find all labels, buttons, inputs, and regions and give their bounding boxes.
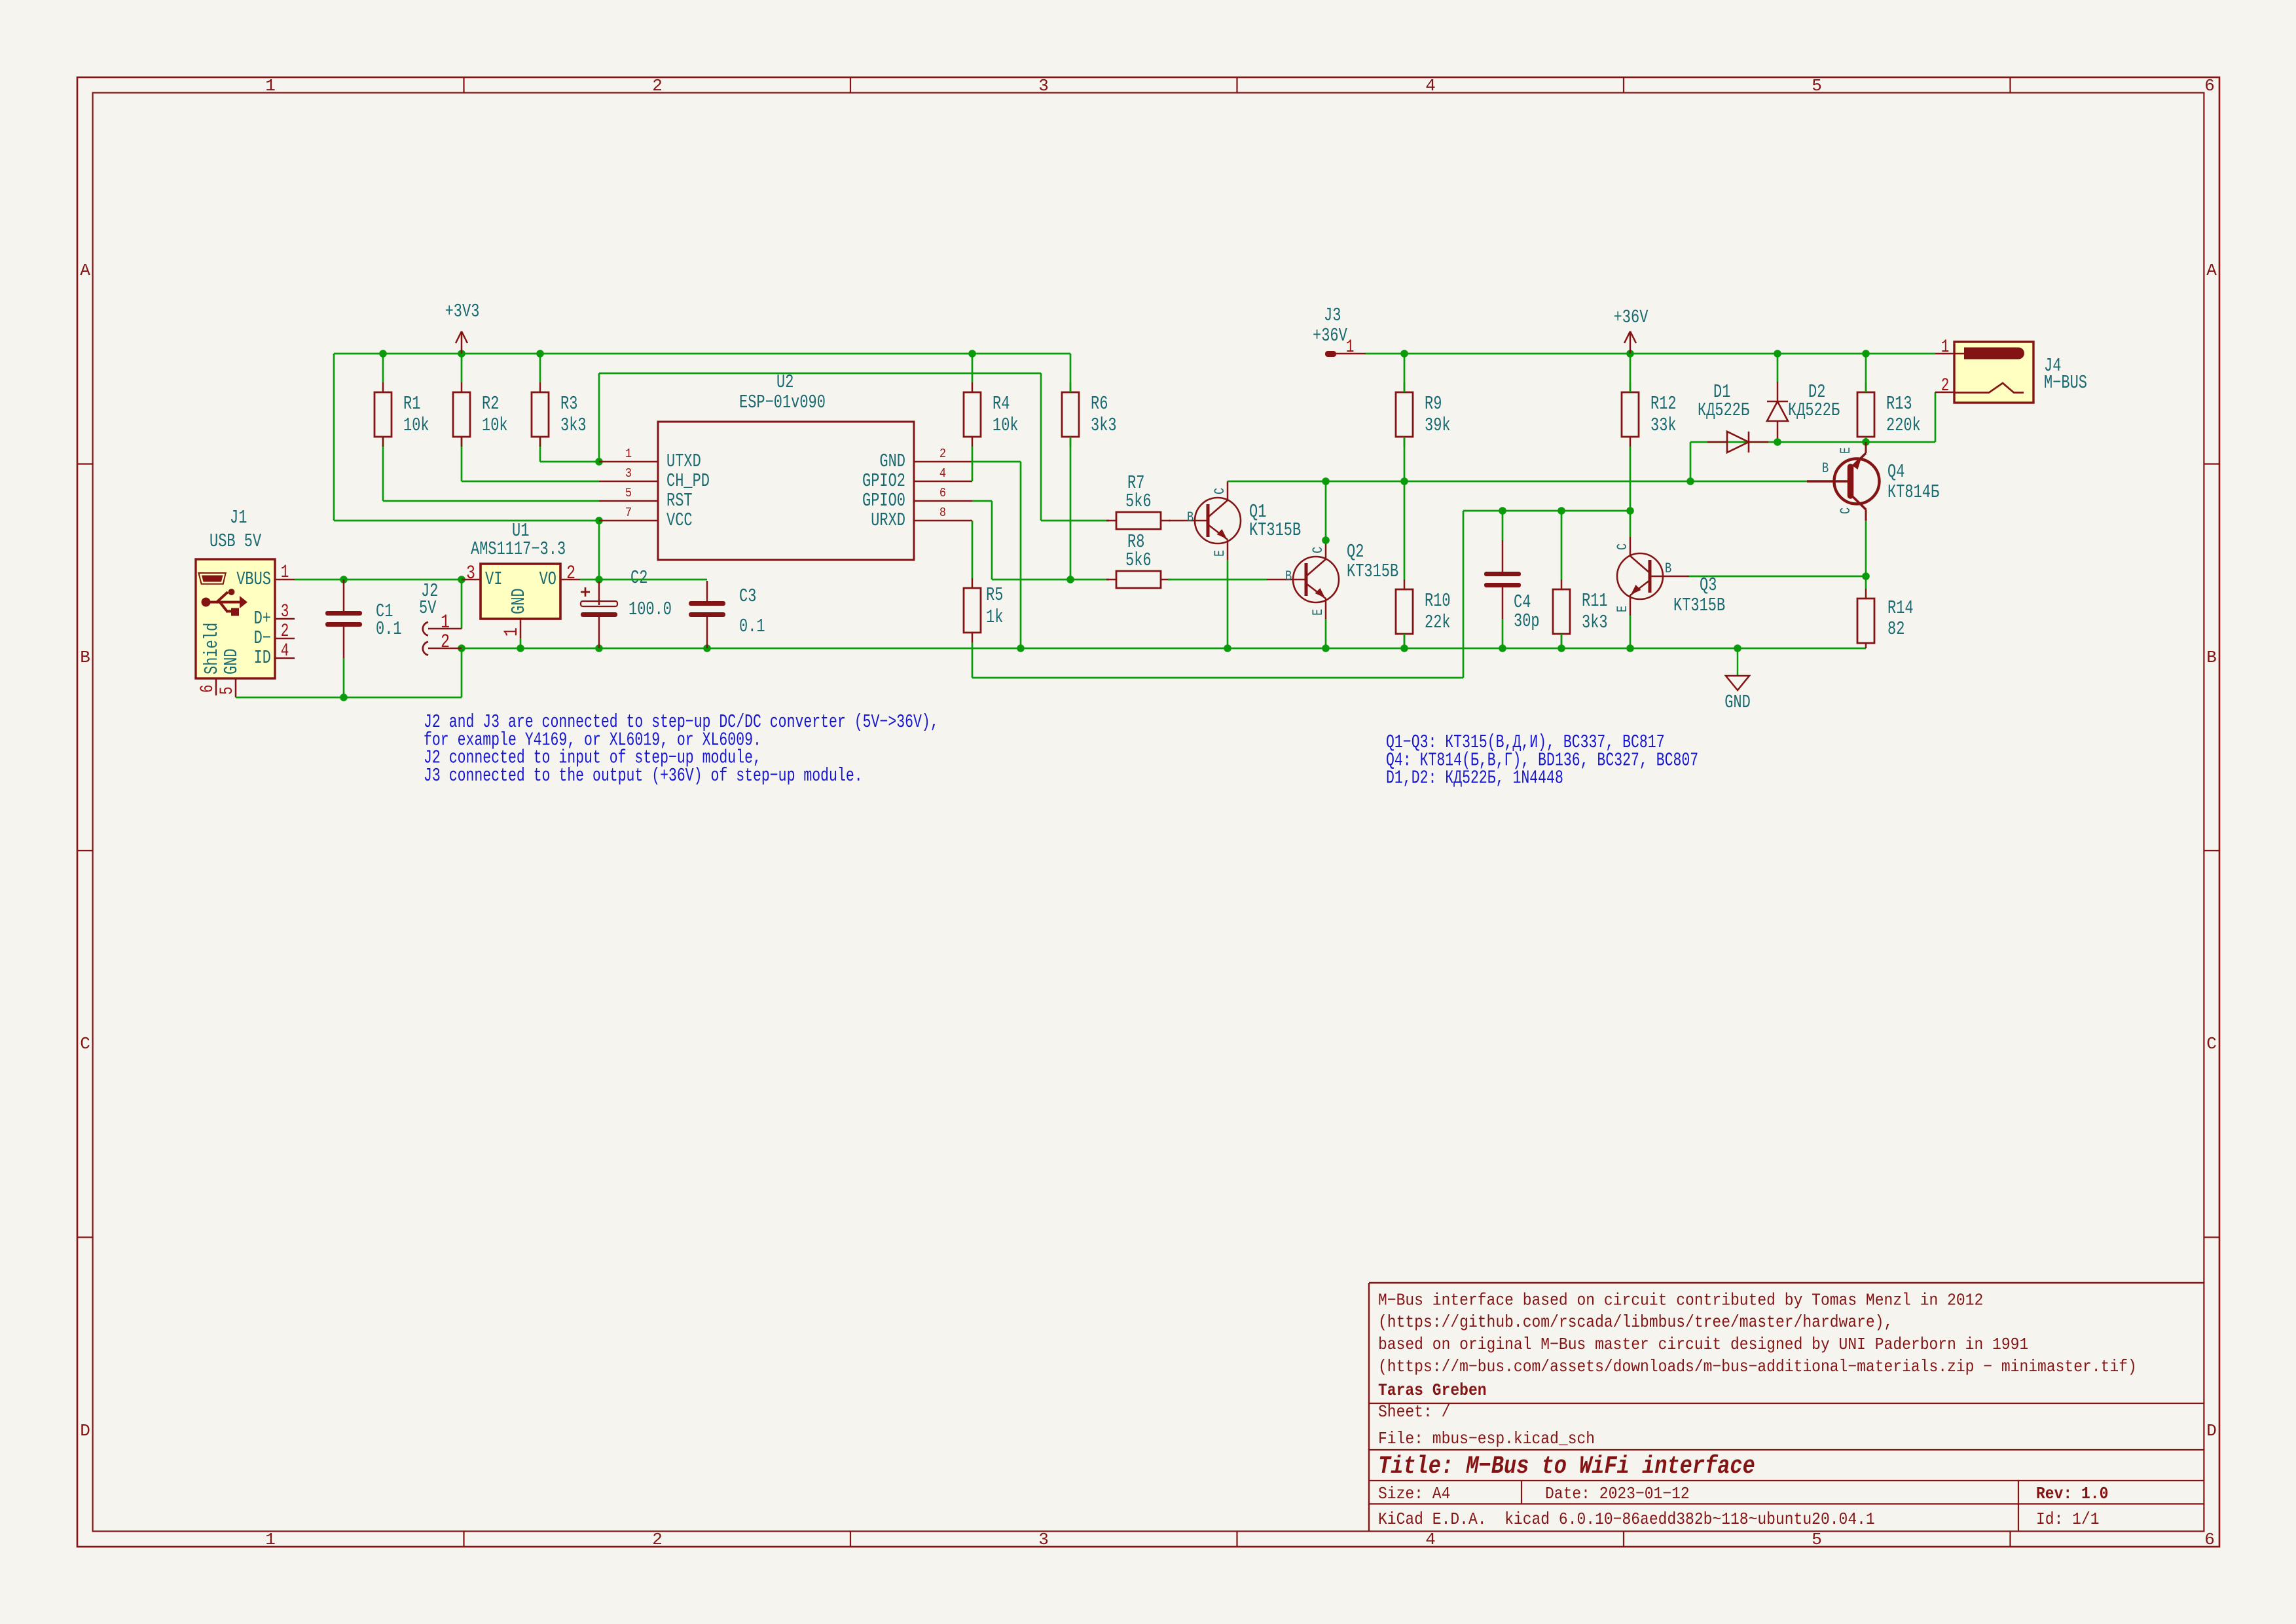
junction C3 bottom [703, 644, 711, 652]
U1 pin 1 GND [501, 619, 523, 648]
svg-text:E: E [1614, 606, 1631, 612]
transistor Q1 [1169, 481, 1301, 560]
svg-text:6: 6 [2204, 76, 2215, 96]
junction J2-1 node [458, 576, 465, 583]
svg-text:B: B [1665, 561, 1671, 577]
resistor R5 [964, 578, 1003, 642]
junction U2 GND drop [1017, 644, 1025, 652]
wire R3 to UTXD [539, 437, 541, 462]
wire R2 top lead [461, 354, 463, 382]
wire RST row [383, 500, 599, 502]
junction +3V3/R1 [379, 350, 387, 358]
junction GND symbol node [1734, 644, 1741, 652]
svg-text:39k: 39k [1425, 415, 1451, 436]
svg-text:Date: 2023−01−12: Date: 2023−01−12 [1545, 1485, 1690, 1504]
junction R9/R10 rail [1400, 477, 1408, 485]
note about J2 J3 step-up converter [424, 711, 939, 786]
svg-text:R10: R10 [1425, 590, 1451, 612]
svg-text:1: 1 [625, 447, 632, 461]
svg-text:C: C [1310, 547, 1326, 553]
junction Q2 C pin node [1322, 536, 1330, 544]
wire GPIO0 to R8 [992, 579, 1109, 581]
svg-text:6: 6 [2204, 1530, 2215, 1549]
J1 pin 6 Shield [198, 623, 223, 695]
svg-text:3k3: 3k3 [560, 415, 587, 436]
svg-text:220k: 220k [1886, 415, 1921, 436]
svg-text:D: D [80, 1421, 90, 1441]
junction D2 top [1774, 350, 1781, 358]
junction UTXD node [595, 458, 603, 466]
svg-text:Size: A4: Size: A4 [1378, 1485, 1450, 1504]
wire Q4 collector drop [1865, 521, 1867, 576]
wire Q3 collector lead [1630, 511, 1631, 537]
svg-text:5k6: 5k6 [1125, 490, 1152, 512]
svg-text:10k: 10k [403, 415, 429, 436]
resistor R4 [964, 382, 1019, 447]
svg-text:5: 5 [1812, 1530, 1822, 1549]
U2 pin 2 GND [879, 447, 972, 472]
J1 pin 1 VBUS [236, 563, 295, 590]
svg-text:VI: VI [485, 568, 502, 590]
svg-text:GND: GND [221, 648, 242, 674]
title block kicad version and id [1378, 1511, 2100, 1529]
U1 pin 2 VO [560, 563, 580, 585]
svg-text:A: A [2206, 261, 2217, 280]
svg-text:ESP−01v090: ESP−01v090 [739, 392, 826, 413]
svg-text:B: B [80, 648, 90, 667]
svg-text:2: 2 [1941, 377, 1950, 396]
wire D2 top lead [1777, 354, 1779, 382]
svg-text:1: 1 [265, 1530, 276, 1549]
svg-text:D+: D+ [254, 608, 271, 629]
svg-text:GND: GND [508, 588, 530, 614]
svg-text:Taras Greben: Taras Greben [1378, 1382, 1487, 1400]
resistor R9 [1396, 382, 1451, 447]
svg-text:Rev: 1.0: Rev: 1.0 [2036, 1485, 2108, 1504]
wire R10 top [1404, 481, 1406, 580]
regulator U1 AMS1117-3.3 [471, 520, 566, 619]
svg-text:5: 5 [1812, 76, 1822, 96]
svg-text:82: 82 [1887, 618, 1904, 640]
svg-text:J3 connected to the output (+3: J3 connected to the output (+36V) of ste… [424, 765, 863, 786]
J1 USB plug icon [198, 573, 225, 584]
J1 pin 4 ID [254, 642, 295, 669]
wire CH_PD row [462, 481, 599, 483]
svg-text:J1: J1 [230, 507, 247, 528]
svg-text:R2: R2 [482, 393, 499, 415]
svg-text:D−: D− [254, 627, 271, 649]
svg-text:C: C [2206, 1034, 2217, 1054]
svg-text:C3: C3 [739, 585, 756, 607]
wire R11 bottom lead [1561, 634, 1563, 648]
junction R6/R8 node [1066, 576, 1074, 583]
junction C1 bottom [340, 693, 348, 701]
svg-text:based on original M−Bus master: based on original M−Bus master circuit d… [1378, 1336, 2028, 1354]
junction D1 rail tap [1686, 477, 1694, 485]
svg-text:33k: 33k [1650, 415, 1677, 436]
IC U2 ESP-01v090 [658, 371, 914, 560]
svg-text:5: 5 [625, 487, 632, 500]
junction Q3 E node [1626, 644, 1634, 652]
svg-text:J3: J3 [1324, 304, 1341, 326]
svg-text:2: 2 [441, 631, 450, 654]
junction U1 GND node [517, 644, 524, 652]
svg-text:4: 4 [1425, 76, 1436, 96]
U2 pin 1 UTXD [599, 447, 701, 472]
wire R10 bottom [1404, 634, 1406, 648]
svg-text:2: 2 [652, 76, 663, 96]
svg-text:6: 6 [939, 487, 946, 500]
svg-text:10k: 10k [993, 415, 1019, 436]
wire +36V bus [1366, 353, 1935, 355]
wire UTXD top run [599, 373, 1041, 375]
svg-text:5V: 5V [419, 597, 437, 619]
svg-text:3: 3 [1038, 76, 1049, 96]
svg-text:R5: R5 [986, 584, 1003, 606]
wire +3V3 bus [334, 353, 1070, 355]
svg-text:1: 1 [1346, 338, 1355, 358]
wire R11 top lead [1561, 511, 1563, 580]
junction C1 top [340, 576, 348, 583]
svg-text:1: 1 [441, 612, 450, 634]
svg-text:GPIO2: GPIO2 [862, 470, 905, 492]
sheet column labels [265, 76, 2215, 1549]
resistor R6 [1062, 382, 1117, 447]
svg-text:R3: R3 [560, 393, 577, 415]
svg-text:1: 1 [1941, 338, 1950, 358]
svg-text:22k: 22k [1425, 612, 1451, 633]
wire GND pin run [972, 461, 1021, 463]
svg-text:B: B [1187, 509, 1194, 526]
svg-text:U2: U2 [776, 371, 793, 393]
U2 pin 7 VCC [599, 506, 693, 531]
svg-text:VO: VO [539, 568, 556, 590]
svg-text:M−Bus interface based on circu: M−Bus interface based on circuit contrib… [1378, 1291, 1983, 1310]
svg-text:7: 7 [625, 506, 632, 520]
svg-text:КТ814Б: КТ814Б [1887, 481, 1939, 503]
svg-text:AMS1117−3.3: AMS1117−3.3 [471, 538, 566, 560]
svg-text:Shield: Shield [201, 623, 223, 674]
svg-text:R11: R11 [1582, 590, 1608, 612]
svg-text:+36V: +36V [1614, 306, 1649, 328]
resistor R3 [532, 382, 587, 447]
svg-text:B: B [2206, 648, 2217, 667]
capacitor C3 [689, 581, 765, 648]
wire URXD to R5 [972, 521, 974, 578]
svg-text:B: B [1285, 568, 1292, 585]
svg-text:5k6: 5k6 [1125, 549, 1152, 571]
title block sheet and file [1378, 1403, 1595, 1449]
svg-text:5: 5 [218, 686, 238, 695]
junction R11 bottom [1558, 644, 1565, 652]
svg-text:1: 1 [501, 627, 523, 637]
wire GPIO0 drop [991, 501, 993, 580]
connector J1 USB 5V [196, 507, 275, 678]
J1 pin 3 D+ [254, 602, 295, 629]
svg-text:Q3: Q3 [1700, 574, 1717, 596]
svg-text:GND: GND [879, 451, 905, 472]
svg-text:C: C [80, 1034, 90, 1054]
connector J4 M-BUS [1954, 342, 2087, 403]
svg-text:(https://m−bus.com/assets/down: (https://m−bus.com/assets/downloads/m−bu… [1378, 1358, 2137, 1376]
wire UTXD riser [598, 373, 600, 462]
svg-text:C: C [1838, 507, 1854, 514]
note about transistor and diode equivalents [1386, 731, 1698, 789]
title block size date rev [1378, 1485, 2108, 1504]
svg-text:КД522Б: КД522Б [1698, 399, 1749, 421]
wire D1 drop [1690, 442, 1692, 481]
wire RX riser [1463, 511, 1465, 678]
wire R13 bottom lead [1865, 437, 1867, 442]
U2 pin 8 URXD [871, 506, 972, 531]
svg-text:2: 2 [652, 1530, 663, 1549]
sheet row labels [80, 261, 2217, 1441]
J1 USB trident icon [202, 589, 248, 616]
junction +3V3/R4 [968, 350, 976, 358]
svg-text:3: 3 [466, 563, 475, 585]
svg-text:0.1: 0.1 [376, 618, 402, 640]
junction VCC node [595, 517, 603, 525]
svg-text:100.0: 100.0 [629, 599, 672, 620]
wire C4 top lead [1502, 511, 1504, 540]
wire R4 to GPIO2 [972, 447, 974, 481]
svg-text:C: C [1212, 488, 1228, 494]
svg-text:R14: R14 [1887, 597, 1914, 619]
wire UTXD drop to R7 [1040, 373, 1042, 521]
svg-text:File: mbus−esp.kicad_sch: File: mbus−esp.kicad_sch [1378, 1430, 1595, 1449]
junction Q1 E node [1224, 644, 1231, 652]
svg-text:3: 3 [1038, 1530, 1049, 1549]
svg-text:1: 1 [281, 563, 289, 583]
svg-text:VBUS: VBUS [236, 568, 271, 590]
svg-text:R12: R12 [1650, 393, 1677, 415]
svg-text:ID: ID [254, 647, 271, 669]
junction D1/D2 node [1774, 438, 1781, 446]
wire R5 down [972, 642, 974, 678]
wire R2 to CH_PD [461, 437, 463, 481]
svg-text:UTXD: UTXD [666, 451, 701, 472]
svg-text:2: 2 [281, 622, 289, 642]
J3 pin 1 [1325, 338, 1366, 358]
junction C2 bottom [595, 644, 603, 652]
wire UTXD to R7 [1041, 520, 1109, 522]
wire R6 top [1070, 354, 1072, 392]
svg-text:2: 2 [939, 447, 946, 461]
svg-text:3k3: 3k3 [1091, 415, 1117, 436]
connector J3 +36V [1313, 304, 1347, 346]
J1 pin 5 GND [218, 648, 242, 697]
svg-text:R9: R9 [1425, 393, 1442, 415]
svg-text:0.1: 0.1 [739, 616, 765, 637]
wire M-Bus mark rail [1690, 441, 1935, 443]
connector J2 5V [419, 580, 438, 619]
diode D2 [1767, 381, 1840, 441]
svg-text:KiCad E.D.A. kicad 6.0.10−86a: KiCad E.D.A. kicad 6.0.10−86aedd382b~118… [1378, 1511, 1875, 1529]
wire UTXD row [540, 461, 599, 463]
junction VO/C2 node [595, 576, 603, 583]
transistor Q4 [1807, 442, 1939, 521]
svg-text:KT315B: KT315B [1347, 561, 1398, 582]
junction R10 bottom [1400, 644, 1408, 652]
svg-text:+36V: +36V [1313, 325, 1347, 346]
svg-text:R6: R6 [1091, 393, 1108, 415]
svg-text:D1,D2: КД522Б, 1N4448: D1,D2: КД522Б, 1N4448 [1386, 767, 1563, 789]
wire C4 rail [1463, 510, 1630, 512]
wire R13 top lead [1865, 354, 1867, 392]
U2 pin 4 GPIO2 [862, 467, 972, 492]
wire +3V3 left drop [333, 354, 335, 521]
wire GND riser [461, 648, 463, 697]
wire R9 bottom [1404, 437, 1406, 481]
wire R3 top lead [539, 354, 541, 382]
wire R12 top lead [1630, 354, 1631, 392]
svg-text:30p: 30p [1514, 610, 1540, 632]
title block frame [1369, 1283, 2204, 1531]
wire R14 top lead [1865, 576, 1867, 589]
wire VBUS run [295, 579, 462, 581]
svg-text:3: 3 [625, 467, 632, 481]
resistor R1 [374, 382, 429, 447]
U2 pin 3 CH_PD [599, 467, 710, 492]
junction J2-2 node [458, 644, 465, 652]
capacitor C4 [1484, 540, 1540, 632]
svg-text:Title: M−Bus to WiFi interface: Title: M−Bus to WiFi interface [1378, 1452, 1755, 1480]
svg-text:A: A [80, 261, 90, 280]
capacitor C1 [325, 580, 402, 658]
wire J4 pin2 riser [1935, 392, 1937, 442]
wire R6 bottom [1070, 437, 1072, 580]
wire R1 top lead [382, 354, 384, 382]
svg-text:GND: GND [1724, 692, 1751, 713]
wire C4 bottom lead [1502, 619, 1504, 648]
resistor R10 [1396, 580, 1451, 644]
svg-text:+3V3: +3V3 [445, 301, 480, 322]
wire RX run [972, 677, 1463, 679]
svg-text:4: 4 [939, 467, 946, 481]
transistor Q3 [1614, 537, 1725, 616]
power symbol +36V [1614, 306, 1649, 354]
transistor Q2 [1267, 540, 1398, 619]
svg-text:R4: R4 [993, 393, 1010, 415]
wire C1 bottom to bus [343, 658, 345, 697]
svg-text:Q4: Q4 [1887, 461, 1904, 483]
wire R1 to RST [382, 437, 384, 501]
capacitor C2 [581, 567, 672, 648]
wire J2 pin1 drop [461, 580, 463, 629]
resistor R11 [1553, 580, 1608, 644]
svg-text:KT315B: KT315B [1673, 595, 1725, 616]
resistor R12 [1622, 382, 1677, 447]
wire GPIO0 run [972, 500, 992, 502]
junction Q2 E node [1322, 644, 1330, 652]
junction R13 top [1862, 350, 1870, 358]
junction R13/Q4E node [1862, 438, 1870, 446]
svg-text:КД522Б: КД522Б [1788, 399, 1840, 421]
wire R4 top [972, 354, 974, 382]
svg-text:URXD: URXD [871, 509, 905, 531]
title block comments text [1378, 1291, 2137, 1400]
svg-text:R13: R13 [1886, 393, 1912, 415]
wire Q2 collector riser [1325, 481, 1327, 540]
svg-text:E: E [1838, 447, 1854, 454]
svg-text:E: E [1212, 550, 1228, 557]
U1 pin 3 VI [462, 563, 481, 585]
J2 pin 1 [423, 612, 462, 635]
svg-text:GPIO0: GPIO0 [862, 490, 905, 511]
svg-text:3: 3 [281, 602, 289, 622]
wire collector rail [1228, 481, 1807, 483]
svg-text:6: 6 [198, 684, 218, 693]
svg-text:VCC: VCC [666, 509, 693, 531]
junction R11 top [1558, 507, 1565, 515]
wire GND pin drop [1020, 462, 1022, 648]
resistor R7 [1106, 472, 1171, 529]
svg-text:3k3: 3k3 [1582, 612, 1608, 633]
svg-text:4: 4 [281, 642, 289, 661]
junction Q4C/R14 node [1862, 572, 1870, 580]
junction R12 top [1626, 350, 1634, 358]
svg-text:4: 4 [1425, 1530, 1436, 1549]
svg-text:C2: C2 [630, 567, 647, 589]
J1 pin 2 D- [254, 622, 295, 649]
svg-text:CH_PD: CH_PD [666, 470, 710, 492]
wire Q3 emitter lead [1630, 616, 1631, 648]
svg-text:Id: 1/1: Id: 1/1 [2036, 1511, 2100, 1529]
U2 pin 6 GPIO0 [862, 487, 972, 511]
junction +3V3/R3 [536, 350, 544, 358]
wire VO run [580, 579, 707, 581]
resistor R8 [1106, 531, 1171, 588]
wire VCC to VO [598, 521, 600, 580]
svg-text:C: C [1614, 544, 1631, 550]
J4 pin 1 [1935, 338, 2024, 360]
resistor R13 [1857, 382, 1921, 447]
svg-text:1k: 1k [986, 606, 1003, 628]
svg-text:(https://github.com/rscada/lib: (https://github.com/rscada/libmbus/tree/… [1378, 1314, 1893, 1332]
ground symbol GND [1724, 648, 1751, 713]
wire Q3 base run [1689, 576, 1866, 578]
junction +3V3/R2 [458, 350, 465, 358]
svg-text:C4: C4 [1514, 591, 1531, 613]
wire Q2 emitter drop [1325, 619, 1327, 648]
resistor R14 [1857, 589, 1914, 648]
junction C4 top [1499, 507, 1506, 515]
J4 pin 2 [1935, 377, 2024, 396]
svg-text:Sheet: /: Sheet: / [1378, 1403, 1450, 1422]
svg-text:D: D [2206, 1421, 2217, 1441]
svg-text:Q2: Q2 [1347, 541, 1364, 563]
svg-text:1: 1 [265, 76, 276, 96]
wire R12 bottom [1630, 447, 1631, 511]
svg-text:B: B [1822, 460, 1829, 477]
svg-text:8: 8 [939, 506, 946, 520]
power symbol +3V3 [445, 301, 480, 354]
svg-text:R1: R1 [403, 393, 420, 415]
junction Q2 C rail [1322, 477, 1330, 485]
wire R9 top lead [1404, 354, 1406, 392]
resistor R2 [453, 382, 508, 447]
U2 pin 5 RST [599, 487, 693, 511]
J2 pin 2 [423, 631, 462, 655]
wire Q1 emitter drop [1227, 560, 1229, 648]
wire J1 GND run [236, 697, 462, 699]
diode D1 [1698, 381, 1768, 452]
svg-text:10k: 10k [482, 415, 508, 436]
junction R9 top [1400, 350, 1408, 358]
wire GND rail [462, 648, 1866, 650]
svg-text:USB 5V: USB 5V [210, 530, 262, 552]
svg-text:E: E [1310, 609, 1326, 616]
